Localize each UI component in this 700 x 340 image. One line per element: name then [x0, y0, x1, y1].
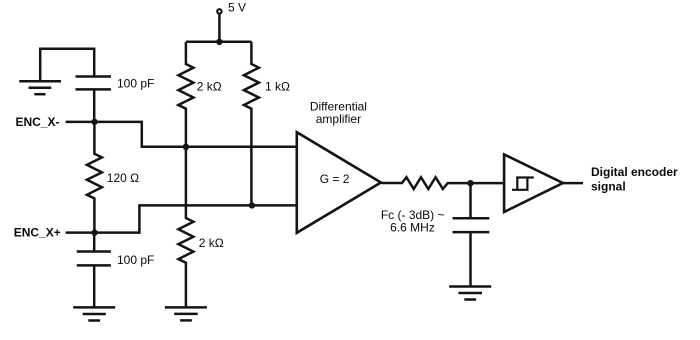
- svg-text:2 kΩ: 2 kΩ: [199, 236, 224, 250]
- svg-text:1 kΩ: 1 kΩ: [265, 80, 290, 94]
- svg-text:120 Ω: 120 Ω: [107, 171, 139, 185]
- svg-text:Digital encoder: Digital encoder: [591, 165, 678, 179]
- svg-text:amplifier: amplifier: [316, 112, 361, 126]
- svg-text:signal: signal: [591, 180, 626, 194]
- svg-text:G = 2: G = 2: [320, 172, 350, 186]
- svg-text:100 pF: 100 pF: [117, 253, 154, 267]
- svg-text:ENC_X+: ENC_X+: [14, 225, 61, 239]
- svg-text:2 kΩ: 2 kΩ: [197, 80, 222, 94]
- svg-text:6.6 MHz: 6.6 MHz: [390, 221, 435, 235]
- svg-text:5 V: 5 V: [228, 1, 246, 15]
- svg-text:100 pF: 100 pF: [117, 77, 154, 91]
- svg-text:ENC_X-: ENC_X-: [16, 115, 60, 129]
